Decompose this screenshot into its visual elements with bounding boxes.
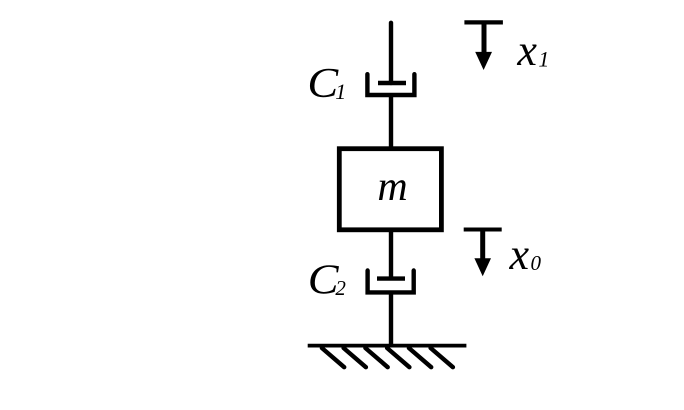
svg-text:m: m <box>377 164 407 210</box>
svg-text:x: x <box>509 230 530 279</box>
svg-text:x: x <box>516 26 537 75</box>
svg-text:0: 0 <box>531 251 542 275</box>
svg-text:1: 1 <box>335 79 346 104</box>
svg-text:1: 1 <box>538 46 549 71</box>
svg-text:2: 2 <box>335 276 346 300</box>
